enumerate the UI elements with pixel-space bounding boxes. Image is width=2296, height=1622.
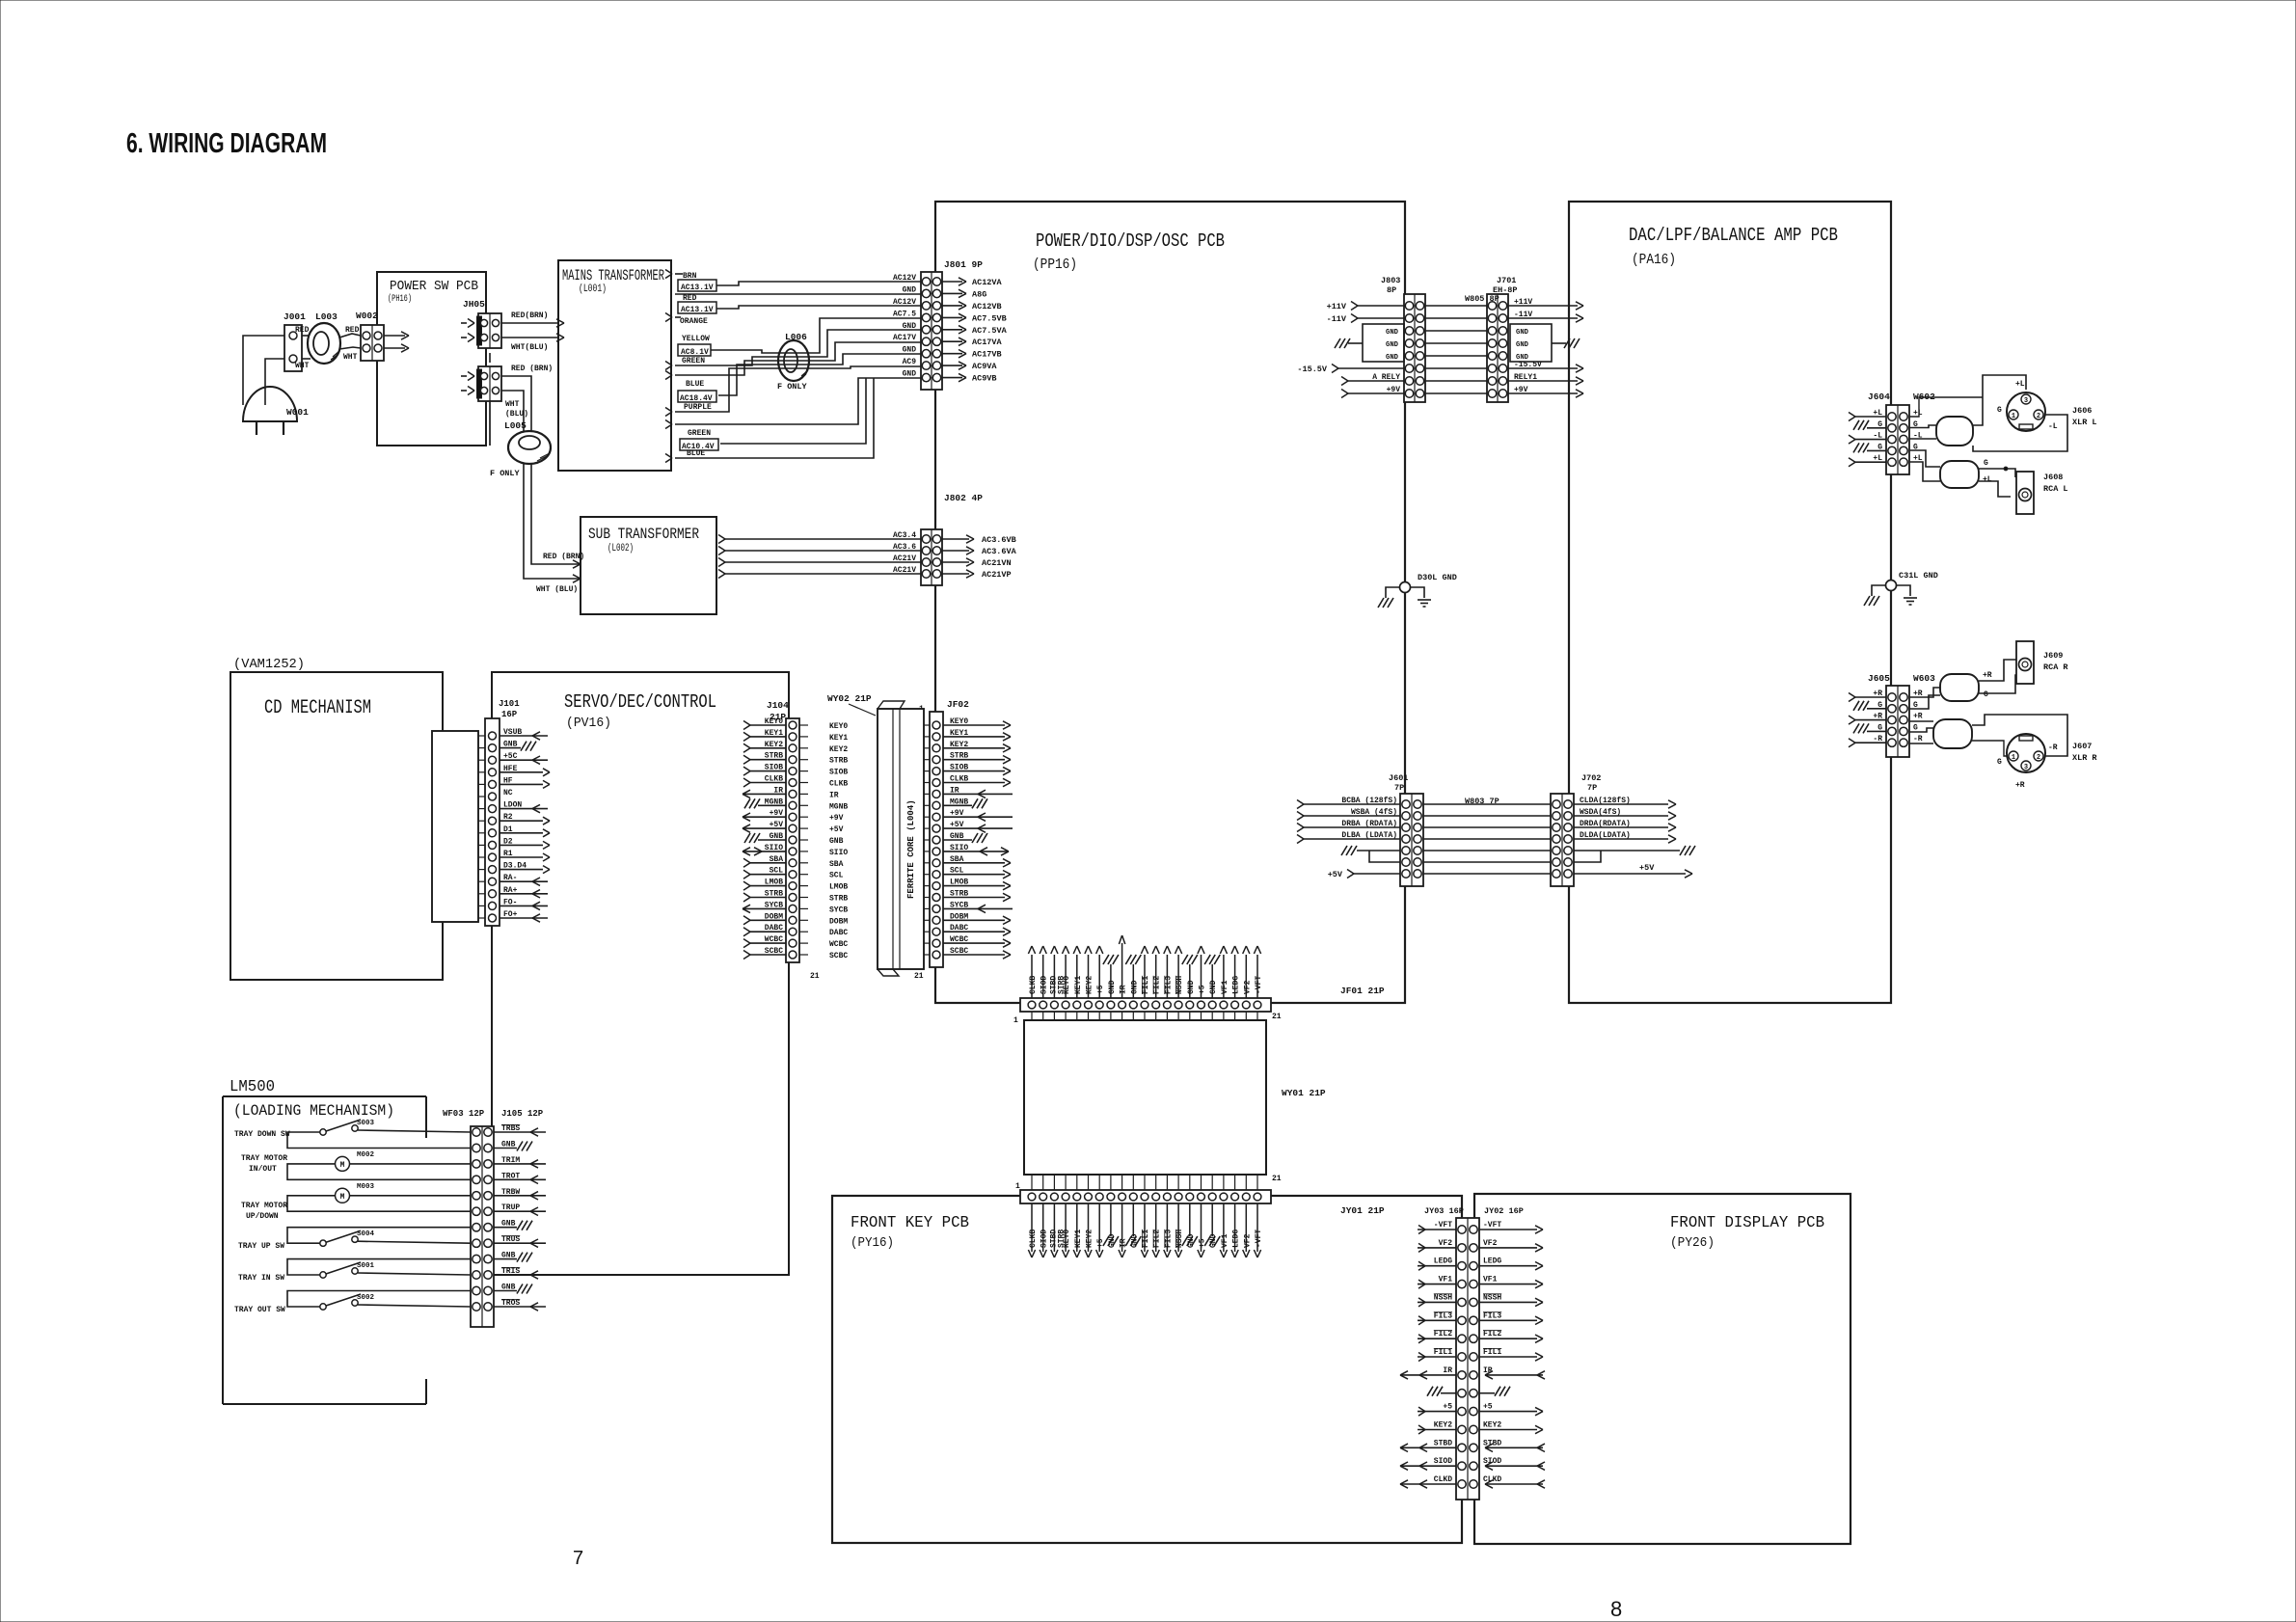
svg-text:W002: W002 [356, 311, 378, 321]
svg-text:RED (BRN): RED (BRN) [511, 365, 553, 373]
svg-text:DOBM: DOBM [829, 917, 848, 926]
svg-text:GND: GND [1386, 329, 1399, 337]
svg-text:FIL1: FIL1 [1142, 1230, 1150, 1248]
svg-text:KEY0: KEY0 [1063, 976, 1071, 994]
svg-text:SIOD: SIOD [1434, 1457, 1452, 1466]
svg-text:PURPLE: PURPLE [684, 403, 712, 412]
svg-text:1: 1 [2012, 754, 2015, 762]
svg-text:KEY0: KEY0 [829, 722, 848, 731]
svg-text:+11V: +11V [1327, 302, 1347, 311]
svg-text:KEY2: KEY2 [829, 745, 848, 754]
svg-text:WHT: WHT [343, 353, 358, 362]
svg-text:J001: J001 [284, 311, 306, 322]
svg-text:21: 21 [810, 972, 820, 981]
svg-text:(PY16): (PY16) [851, 1235, 894, 1251]
svg-text:6. WIRING DIAGRAM: 6. WIRING DIAGRAM [126, 128, 327, 159]
svg-text:+9V: +9V [829, 814, 844, 823]
svg-text:+5: +5 [1096, 985, 1105, 994]
svg-text:SIOB: SIOB [829, 769, 848, 777]
svg-text:+R: +R [1983, 671, 1992, 680]
svg-text:YELLOW: YELLOW [682, 335, 710, 343]
svg-text:-VFT: -VFT [1255, 976, 1263, 994]
svg-text:-15.5V: -15.5V [1297, 365, 1328, 374]
svg-text:A RELY: A RELY [1372, 373, 1400, 382]
svg-text:J702: J702 [1581, 773, 1601, 783]
svg-text:RED: RED [295, 326, 310, 335]
svg-text:AC7.5VB: AC7.5VB [972, 313, 1007, 323]
svg-text:TRAY DOWN SW: TRAY DOWN SW [234, 1130, 290, 1139]
svg-text:GND: GND [1516, 341, 1529, 349]
svg-text:21: 21 [1272, 1013, 1282, 1021]
svg-text:GND: GND [1187, 980, 1196, 994]
svg-text:(PA16): (PA16) [1632, 252, 1676, 268]
svg-text:(L001): (L001) [579, 284, 607, 295]
svg-text:(LOADING MECHANISM): (LOADING MECHANISM) [233, 1102, 394, 1120]
svg-text:NSSH: NSSH [1434, 1293, 1452, 1302]
svg-text:SIOD: SIOD [1040, 1230, 1049, 1248]
svg-text:J701: J701 [1497, 276, 1516, 285]
svg-text:GND: GND [1130, 1233, 1139, 1248]
svg-text:FIL1: FIL1 [1483, 1348, 1501, 1357]
svg-text:M: M [340, 1193, 345, 1202]
svg-text:F ONLY: F ONLY [490, 469, 521, 478]
svg-text:UP/DOWN: UP/DOWN [246, 1212, 279, 1221]
svg-text:FIL3: FIL3 [1164, 976, 1173, 994]
svg-text:2: 2 [2037, 754, 2040, 762]
svg-text:+5V: +5V [829, 825, 844, 834]
svg-text:TRAY OUT SW: TRAY OUT SW [234, 1306, 285, 1314]
svg-text:MAINS TRANSFORMER: MAINS TRANSFORMER [562, 267, 664, 284]
svg-text:GND: GND [1209, 980, 1218, 994]
svg-text:7P: 7P [1587, 783, 1597, 793]
svg-text:M: M [340, 1161, 345, 1170]
svg-text:JY02 16P: JY02 16P [1484, 1206, 1524, 1216]
svg-text:RELY1: RELY1 [1514, 373, 1537, 382]
svg-text:FIL3: FIL3 [1434, 1311, 1452, 1320]
svg-text:21: 21 [914, 972, 924, 981]
svg-text:8P: 8P [1387, 285, 1396, 295]
svg-text:VF2: VF2 [1243, 980, 1252, 994]
svg-text:TRAY UP SW: TRAY UP SW [238, 1242, 284, 1251]
svg-text:CD MECHANISM: CD MECHANISM [264, 697, 371, 719]
svg-text:KEY2: KEY2 [1086, 976, 1094, 994]
svg-text:DABC: DABC [829, 929, 848, 937]
svg-text:KEY1: KEY1 [829, 734, 848, 743]
svg-text:WY01 21P: WY01 21P [1282, 1088, 1326, 1098]
svg-text:C31L GND: C31L GND [1899, 571, 1938, 581]
svg-text:WSDA(4fS): WSDA(4fS) [1580, 808, 1621, 817]
svg-text:+R: +R [2015, 781, 2025, 790]
svg-text:1: 1 [1015, 1182, 1020, 1191]
svg-text:W603: W603 [1913, 673, 1935, 684]
svg-text:XLR R: XLR R [2072, 753, 2097, 763]
svg-text:GND: GND [1187, 1233, 1196, 1248]
svg-text:(PH16): (PH16) [388, 293, 412, 305]
svg-text:L005: L005 [504, 420, 527, 431]
svg-text:FIL2: FIL2 [1483, 1330, 1501, 1338]
svg-text:AC17VA: AC17VA [972, 338, 1003, 347]
svg-text:VF1: VF1 [1221, 1233, 1229, 1248]
svg-text:GND: GND [1108, 980, 1117, 994]
svg-text:RCA R: RCA R [2043, 662, 2068, 672]
svg-text:AC7.5: AC7.5 [893, 310, 916, 318]
svg-text:XLR L: XLR L [2072, 418, 2097, 427]
svg-text:RED (BRN): RED (BRN) [543, 553, 584, 561]
svg-text:GND: GND [903, 285, 917, 294]
svg-text:+5: +5 [1483, 1403, 1493, 1412]
svg-text:-VFT: -VFT [1434, 1221, 1452, 1230]
svg-text:LM500: LM500 [230, 1078, 275, 1096]
svg-text:GREEN: GREEN [682, 357, 705, 365]
svg-text:+11V: +11V [1514, 298, 1532, 307]
svg-text:8: 8 [1610, 1597, 1622, 1621]
svg-text:7: 7 [573, 1548, 583, 1569]
svg-text:AC3.6VA: AC3.6VA [982, 547, 1017, 556]
svg-text:J803: J803 [1381, 276, 1400, 285]
svg-text:L006: L006 [785, 332, 807, 342]
svg-text:-R: -R [2048, 743, 2058, 752]
svg-text:GNB: GNB [829, 837, 844, 846]
svg-text:WHT: WHT [295, 362, 310, 370]
svg-text:J105 12P: J105 12P [501, 1109, 544, 1119]
svg-text:RED(BRN): RED(BRN) [511, 311, 548, 320]
svg-text:FIL2: FIL2 [1153, 976, 1162, 994]
svg-text:D30L GND: D30L GND [1418, 573, 1457, 582]
svg-text:VF2: VF2 [1439, 1239, 1453, 1248]
svg-text:FRONT KEY PCB: FRONT KEY PCB [851, 1214, 969, 1232]
svg-text:+L: +L [1983, 475, 1992, 484]
svg-text:GND: GND [1108, 1233, 1117, 1248]
svg-text:VF2: VF2 [1483, 1239, 1498, 1248]
svg-text:SBA: SBA [829, 860, 844, 869]
svg-text:M002: M002 [357, 1151, 375, 1159]
svg-text:(PP16): (PP16) [1033, 257, 1077, 273]
svg-text:DAC/LPF/BALANCE AMP PCB: DAC/LPF/BALANCE AMP PCB [1629, 225, 1838, 246]
svg-text:GND: GND [1209, 1233, 1218, 1248]
svg-text:VF1: VF1 [1439, 1276, 1453, 1284]
svg-text:SUB TRANSFORMER: SUB TRANSFORMER [588, 526, 699, 543]
svg-text:CLKB: CLKB [1029, 1230, 1038, 1248]
svg-text:G: G [1913, 723, 1918, 732]
svg-text:RCA L: RCA L [2043, 484, 2068, 494]
svg-text:M003: M003 [357, 1183, 375, 1191]
svg-text:J801 9P: J801 9P [944, 259, 983, 270]
svg-text:1: 1 [1013, 1016, 1018, 1025]
svg-text:(PY26): (PY26) [1670, 1235, 1715, 1251]
svg-text:STRB: STRB [829, 757, 848, 766]
svg-text:FIL3: FIL3 [1164, 1230, 1173, 1248]
svg-text:SCBC: SCBC [829, 952, 848, 960]
svg-text:FIL2: FIL2 [1153, 1230, 1162, 1248]
svg-text:POWER/DIO/DSP/OSC PCB: POWER/DIO/DSP/OSC PCB [1036, 230, 1225, 252]
svg-text:(BLU): (BLU) [505, 410, 528, 419]
svg-text:J101: J101 [499, 699, 520, 709]
svg-text:WHT (BLU): WHT (BLU) [536, 585, 578, 594]
svg-text:J606: J606 [2072, 406, 2092, 416]
svg-text:AC12VA: AC12VA [972, 278, 1003, 287]
svg-text:+5V: +5V [1328, 870, 1343, 879]
svg-text:2: 2 [2037, 413, 2040, 420]
svg-text:FIL1: FIL1 [1434, 1348, 1452, 1357]
svg-text:J607: J607 [2072, 742, 2092, 751]
svg-text:JH05: JH05 [463, 299, 485, 310]
svg-text:SCL: SCL [829, 872, 844, 880]
svg-text:TRAY MOTOR: TRAY MOTOR [241, 1154, 287, 1163]
svg-text:AC21VN: AC21VN [982, 558, 1012, 568]
svg-text:AC21VP: AC21VP [982, 570, 1012, 580]
svg-text:IR: IR [1443, 1366, 1452, 1375]
svg-text:AC18.4V: AC18.4V [680, 394, 713, 403]
svg-text:WF03 12P: WF03 12P [443, 1109, 485, 1119]
svg-text:IR: IR [1120, 985, 1128, 994]
svg-text:3: 3 [2024, 764, 2028, 771]
svg-text:CLKB: CLKB [1029, 976, 1038, 994]
svg-text:LEDG: LEDG [1232, 976, 1241, 994]
svg-text:+R: +R [1913, 713, 1923, 721]
svg-text:FIL1: FIL1 [1142, 976, 1150, 994]
svg-text:JY01 21P: JY01 21P [1340, 1205, 1385, 1216]
svg-text:FERRITE CORE (L004): FERRITE CORE (L004) [906, 799, 916, 899]
svg-text:+L: +L [2015, 380, 2025, 389]
svg-text:FRONT DISPLAY PCB: FRONT DISPLAY PCB [1670, 1214, 1824, 1232]
svg-text:VF1: VF1 [1483, 1276, 1498, 1284]
svg-text:G: G [1997, 406, 2002, 415]
svg-text:SIOD: SIOD [1040, 976, 1049, 994]
svg-text:(VAM1252): (VAM1252) [233, 657, 305, 672]
svg-text:(L002): (L002) [608, 543, 634, 554]
svg-text:ORANGE: ORANGE [680, 317, 708, 326]
svg-text:3: 3 [2024, 397, 2028, 405]
svg-text:-11V: -11V [1327, 314, 1347, 324]
svg-text:J601: J601 [1389, 773, 1408, 783]
svg-text:NC: NC [503, 789, 513, 797]
svg-text:AC9VB: AC9VB [972, 374, 997, 384]
svg-text:W001: W001 [286, 407, 309, 418]
svg-text:GND: GND [1516, 354, 1529, 362]
svg-text:WCBC: WCBC [829, 940, 848, 949]
svg-text:AC8.1V: AC8.1V [681, 348, 709, 357]
svg-text:GND: GND [1386, 354, 1399, 362]
svg-text:IR: IR [829, 791, 839, 799]
svg-text:POWER SW PCB: POWER SW PCB [390, 279, 478, 294]
svg-text:J104: J104 [767, 700, 789, 711]
svg-text:WHT: WHT [505, 400, 520, 409]
svg-text:GREEN: GREEN [688, 429, 711, 438]
svg-text:BLUE: BLUE [686, 380, 704, 389]
svg-text:FIL3: FIL3 [1483, 1311, 1501, 1320]
svg-text:JY03 16P: JY03 16P [1424, 1206, 1464, 1216]
svg-text:VF2: VF2 [1243, 1233, 1252, 1248]
svg-text:J609: J609 [2043, 651, 2063, 661]
svg-text:-11V: -11V [1514, 311, 1532, 319]
svg-text:GND: GND [1130, 980, 1139, 994]
svg-text:GND: GND [1516, 329, 1529, 337]
svg-text:KEY2: KEY2 [1434, 1421, 1452, 1430]
svg-text:STBD: STBD [1434, 1439, 1452, 1447]
svg-text:AC13.1V: AC13.1V [681, 306, 714, 314]
svg-text:+5: +5 [1199, 985, 1207, 994]
svg-text:GND: GND [1386, 341, 1399, 349]
svg-text:TRAY MOTOR: TRAY MOTOR [241, 1202, 287, 1210]
svg-text:SYCB: SYCB [829, 906, 848, 914]
svg-text:RED: RED [345, 326, 360, 335]
svg-text:MGNB: MGNB [829, 802, 848, 811]
svg-text:1: 1 [2012, 413, 2015, 420]
svg-text:7P: 7P [1394, 783, 1404, 793]
svg-text:AC9: AC9 [903, 358, 917, 366]
svg-text:WHT(BLU): WHT(BLU) [511, 343, 548, 352]
svg-text:CLKB: CLKB [829, 780, 848, 789]
svg-text:LEDG: LEDG [1232, 1230, 1241, 1248]
svg-text:WY02 21P: WY02 21P [827, 693, 872, 704]
svg-text:(PV16): (PV16) [566, 716, 611, 731]
svg-text:-VFT: -VFT [1483, 1221, 1501, 1230]
svg-text:AC9VA: AC9VA [972, 362, 997, 371]
svg-text:SIIO: SIIO [829, 849, 848, 857]
svg-text:IN/OUT: IN/OUT [249, 1165, 277, 1174]
svg-text:J605: J605 [1868, 673, 1890, 684]
svg-text:SERVO/DEC/CONTROL: SERVO/DEC/CONTROL [564, 691, 716, 713]
svg-text:-VFT: -VFT [1255, 1230, 1263, 1248]
svg-text:DLDA(LDATA): DLDA(LDATA) [1580, 831, 1631, 840]
svg-text:AC17V: AC17V [893, 334, 916, 342]
svg-text:AC12VB: AC12VB [972, 302, 1002, 311]
svg-text:L003: L003 [315, 311, 338, 322]
svg-text:LEDG: LEDG [1483, 1257, 1501, 1266]
svg-text:FIL2: FIL2 [1434, 1330, 1452, 1338]
svg-text:+5: +5 [1443, 1403, 1452, 1412]
svg-text:KEY2: KEY2 [1483, 1421, 1501, 1430]
svg-text:+9V: +9V [1514, 386, 1528, 394]
svg-text:TRAY IN SW: TRAY IN SW [238, 1274, 284, 1283]
svg-text:KEY1: KEY1 [1074, 1230, 1083, 1248]
svg-text:-L: -L [2048, 422, 2058, 431]
svg-text:-R: -R [1913, 735, 1923, 743]
svg-text:AC3.6VB: AC3.6VB [982, 535, 1016, 545]
svg-text:CLKD: CLKD [1434, 1475, 1452, 1484]
svg-text:LEDG: LEDG [1434, 1257, 1452, 1266]
svg-text:NSSH: NSSH [1483, 1293, 1501, 1302]
svg-text:16P: 16P [501, 710, 518, 719]
svg-text:G: G [1984, 690, 1988, 699]
svg-text:J604: J604 [1868, 392, 1890, 402]
svg-text:JF01 21P: JF01 21P [1340, 986, 1385, 996]
svg-text:KEY0: KEY0 [1063, 1230, 1071, 1248]
svg-text:+9V: +9V [1387, 386, 1401, 394]
svg-text:LMOB: LMOB [829, 883, 848, 892]
svg-text:AC17VB: AC17VB [972, 350, 1002, 360]
svg-text:KEY1: KEY1 [1074, 976, 1083, 994]
svg-text:CLDA(128fS): CLDA(128fS) [1580, 797, 1631, 805]
svg-text:NSSH: NSSH [1175, 976, 1184, 994]
svg-text:F ONLY: F ONLY [777, 382, 808, 392]
svg-text:J608: J608 [2043, 473, 2063, 482]
svg-text:VF1: VF1 [1221, 980, 1229, 994]
svg-text:KEY2: KEY2 [1086, 1230, 1094, 1248]
svg-text:J802 4P: J802 4P [944, 493, 983, 503]
svg-text:G: G [1984, 459, 1988, 468]
svg-text:G: G [1997, 758, 2002, 767]
svg-text:BLUE: BLUE [687, 449, 705, 458]
svg-text:AC7.5VA: AC7.5VA [972, 326, 1008, 336]
svg-text:+5V: +5V [1639, 863, 1655, 873]
svg-text:AC13.1V: AC13.1V [681, 284, 714, 292]
svg-text:JF02: JF02 [947, 699, 969, 710]
svg-text:21: 21 [1272, 1175, 1282, 1183]
svg-text:STRB: STRB [829, 895, 848, 904]
svg-text:DRDA(RDATA): DRDA(RDATA) [1580, 820, 1631, 828]
svg-text:A8G: A8G [972, 289, 986, 299]
svg-text:W805 8P: W805 8P [1465, 294, 1499, 304]
